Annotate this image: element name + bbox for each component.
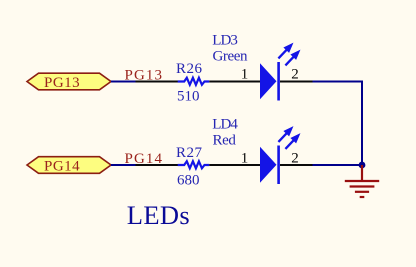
svg-text:LD3: LD3 (212, 33, 237, 49)
svg-text:R27: R27 (176, 145, 203, 161)
svg-text:Green: Green (213, 49, 249, 65)
svg-text:1: 1 (241, 150, 249, 166)
wire (313, 81, 364, 83)
resistor R27 (136, 161, 235, 168)
LED LD4 (234, 129, 313, 185)
port PG13 (27, 73, 111, 91)
svg-text:1: 1 (241, 67, 249, 83)
svg-text:2: 2 (291, 150, 299, 166)
svg-text:PG14: PG14 (44, 159, 80, 175)
svg-text:R26: R26 (176, 61, 203, 77)
wire (111, 164, 137, 166)
resistor R26 (136, 78, 235, 85)
svg-text:2: 2 (291, 67, 299, 83)
svg-text:LD4: LD4 (212, 117, 238, 133)
wire (313, 164, 363, 166)
svg-text:PG13: PG13 (44, 75, 80, 91)
svg-text:LEDs: LEDs (127, 200, 190, 230)
wire (361, 81, 363, 166)
LED LD3 (234, 45, 313, 101)
svg-text:Red: Red (213, 133, 237, 149)
port PG14 (27, 157, 111, 175)
svg-text:510: 510 (177, 88, 200, 104)
junction (359, 162, 366, 169)
ground (345, 165, 379, 197)
wire (111, 81, 137, 83)
svg-text:680: 680 (177, 173, 200, 189)
